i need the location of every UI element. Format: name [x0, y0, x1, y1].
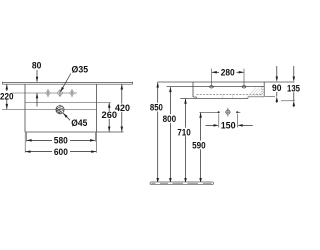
svg-text:280: 280	[221, 68, 235, 78]
svg-text:850: 850	[150, 103, 163, 113]
dimension 600	[25, 133, 96, 157]
node dot left	[218, 111, 220, 113]
tap hole cross right	[70, 89, 74, 97]
dimension 220	[0, 84, 14, 109]
svg-text:590: 590	[192, 140, 206, 150]
svg-text:600: 600	[54, 147, 68, 157]
siphon centerline	[200, 111, 219, 113]
section hatch near wall	[249, 88, 264, 97]
svg-text:420: 420	[115, 103, 130, 113]
front edge	[192, 82, 194, 97]
back edge	[263, 82, 265, 97]
short line right of dot	[237, 111, 240, 113]
hidden bowl verticals (dashed)	[222, 94, 224, 98]
tap hole (side) right	[242, 86, 246, 88]
step back	[247, 97, 249, 99]
svg-text:135: 135	[287, 83, 300, 93]
dimension 280	[212, 68, 245, 86]
hidden interior bottom (dashed)	[197, 93, 263, 95]
front lip bottom	[193, 96, 197, 98]
deck line	[167, 85, 265, 87]
svg-text:710: 710	[177, 127, 191, 137]
svg-text:220: 220	[0, 91, 14, 101]
label Ø45 with leader	[62, 112, 88, 129]
floor bar	[150, 182, 214, 185]
svg-text:80: 80	[32, 60, 42, 70]
top rim line	[158, 81, 295, 83]
dimension 590	[192, 112, 206, 183]
siphon symbol	[225, 108, 230, 117]
hidden back vertical (dotted)	[261, 87, 263, 95]
dimension 80	[32, 60, 42, 106]
svg-text:260: 260	[102, 110, 118, 120]
dimension 150	[206, 114, 253, 131]
basin bottom edge	[25, 131, 124, 133]
back bottom	[248, 96, 264, 98]
countertop slab	[3, 81, 133, 83]
tap hole centerline	[12, 92, 77, 94]
tap hole (side) left	[210, 86, 214, 88]
svg-text:Ø35: Ø35	[72, 64, 89, 75]
dimension 135	[281, 66, 300, 107]
dimension 260	[102, 102, 118, 131]
dimension 90	[265, 66, 282, 103]
dimension 850	[150, 82, 163, 183]
bulge bottom	[180, 97, 248, 99]
inner line upper	[25, 101, 111, 103]
drain Ø45	[53, 104, 67, 126]
dimension 420	[115, 84, 130, 132]
svg-text:Ø45: Ø45	[71, 118, 88, 129]
svg-text:800: 800	[163, 114, 177, 124]
dimension 800	[163, 87, 177, 184]
dimension 580	[26, 133, 95, 146]
basin right edge	[96, 84, 98, 132]
tap hole cross middle (Ø35)	[58, 89, 63, 97]
svg-text:150: 150	[221, 121, 236, 131]
svg-text:90: 90	[272, 83, 282, 93]
dimension 710	[177, 99, 191, 184]
label Ø35 with leader	[59, 64, 88, 92]
node dot right	[236, 111, 238, 113]
basin left edge	[24, 84, 26, 132]
tap hole cross left	[46, 89, 50, 97]
svg-text:580: 580	[54, 136, 68, 146]
inner line lower	[2, 108, 97, 110]
step front	[196, 97, 198, 98]
